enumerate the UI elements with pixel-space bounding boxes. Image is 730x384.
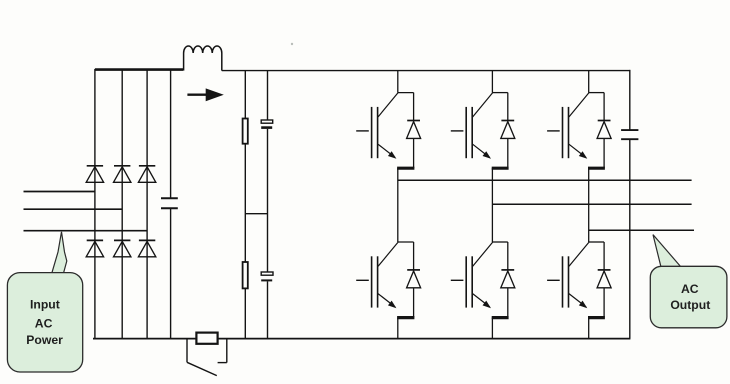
wire: output phase V bbox=[492, 203, 691, 205]
diode D1 (rectifier top row) bbox=[87, 165, 103, 167]
resistor R1 (DC bus balance, upper) bbox=[243, 119, 248, 144]
diode D4 (rectifier bottom row) bbox=[87, 239, 103, 241]
wire: rectifier DC+ bus (thick segment) bbox=[95, 68, 183, 71]
arrow: DC current flow direction bbox=[187, 94, 207, 96]
resistor R3 (precharge, in DC- bus) bbox=[196, 333, 217, 344]
wire: phase V column to DC- bus bbox=[491, 318, 493, 339]
diode D3 (rectifier top row) bbox=[139, 165, 155, 167]
diode D9 (freewheel of Q3) bbox=[597, 93, 611, 168]
diode D7 (freewheel of Q1) bbox=[407, 93, 421, 168]
wire: phase V column mid vertical bbox=[491, 168, 493, 242]
callout: Input AC Power bbox=[52, 232, 67, 273]
wire: between C2 and C3 bbox=[267, 129, 269, 272]
wire: rectifier leg 1 vertical bbox=[94, 69, 96, 339]
diode D10 (freewheel of Q4) bbox=[407, 242, 421, 317]
transistor Q6 (IGBT, bottom row) bbox=[547, 242, 605, 318]
wire: phase U column to DC- bus bbox=[397, 318, 399, 339]
capacitor C1 (input filter) bbox=[161, 197, 178, 199]
svg-text:Output: Output bbox=[670, 298, 710, 312]
wire: balance resistor column bottom lead bbox=[244, 288, 246, 338]
wire: output capacitor column bottom lead bbox=[629, 139, 631, 338]
wire: input phase line 1 bbox=[24, 191, 95, 193]
transistor Q3 (IGBT, top row) bbox=[547, 93, 605, 169]
switch S1 blade (precharge bypass) bbox=[187, 362, 217, 375]
transistor Q4 (IGBT, bottom row) bbox=[356, 242, 414, 318]
wire: rectifier leg 3 vertical bbox=[146, 69, 148, 339]
callout: AC Output bbox=[653, 235, 681, 267]
transistor Q5 (IGBT, bottom row) bbox=[451, 242, 509, 318]
svg-text:AC: AC bbox=[35, 317, 53, 331]
wire: phase W column mid vertical bbox=[588, 168, 590, 242]
wire: phase U column collector drop (top) bbox=[397, 71, 399, 93]
inductor L1 (DC choke) bbox=[184, 46, 222, 71]
wire: output phase W bbox=[589, 229, 694, 231]
wire: input phase line 3 bbox=[24, 230, 148, 232]
wire: output phase U bbox=[398, 179, 692, 181]
svg-text:AC: AC bbox=[681, 282, 699, 296]
wire: input capacitor bottom lead bbox=[170, 208, 172, 338]
wire: DC link midpoint tie bbox=[245, 213, 267, 215]
wire: bypass switch right drop bbox=[226, 339, 228, 363]
node: faint artifact dot bbox=[291, 43, 293, 45]
wire: phase U column mid vertical bbox=[397, 168, 399, 242]
wire: input capacitor top lead bbox=[170, 69, 172, 198]
svg-text:Input: Input bbox=[30, 298, 60, 312]
svg-text:Power: Power bbox=[26, 333, 63, 347]
transistor Q1 (IGBT, top row) bbox=[356, 93, 414, 169]
wire: phase W column to DC- bus bbox=[588, 318, 590, 339]
wire: input phase line 2 bbox=[24, 208, 123, 210]
wire: DC+ rail bbox=[222, 70, 631, 72]
diode D5 (rectifier bottom row) bbox=[114, 239, 130, 241]
diode D12 (freewheel of Q6) bbox=[597, 242, 611, 317]
capacitor C3 (DC link, lower) bbox=[261, 272, 273, 275]
wire: rectifier leg 2 vertical bbox=[121, 69, 123, 339]
transistor Q2 (IGBT, top row) bbox=[451, 93, 509, 169]
resistor R2 (DC bus balance, lower) bbox=[243, 262, 248, 288]
wire: phase V column collector drop (top) bbox=[491, 71, 493, 93]
wire: DC link capacitor column bottom lead bbox=[267, 281, 269, 338]
capacitor C2 (DC link, upper) bbox=[261, 120, 273, 123]
wire: between R1 and R2 bbox=[244, 144, 246, 262]
diode D8 (freewheel of Q2) bbox=[501, 93, 515, 168]
wire: phase W column collector drop (top) bbox=[588, 71, 590, 93]
diode D2 (rectifier top row) bbox=[114, 165, 130, 167]
wire: DC- bus bbox=[93, 338, 630, 340]
diode D11 (freewheel of Q5) bbox=[501, 242, 515, 317]
diode D6 (rectifier bottom row) bbox=[139, 239, 155, 241]
wire: bypass switch left drop bbox=[186, 339, 188, 363]
wire: bypass switch contact bbox=[218, 362, 227, 364]
wire: output capacitor column top lead bbox=[629, 70, 631, 130]
capacitor C4 (output filter) bbox=[621, 129, 638, 131]
wire: DC link capacitor column top lead bbox=[267, 71, 269, 120]
wire: balance resistor column top lead bbox=[244, 71, 246, 119]
